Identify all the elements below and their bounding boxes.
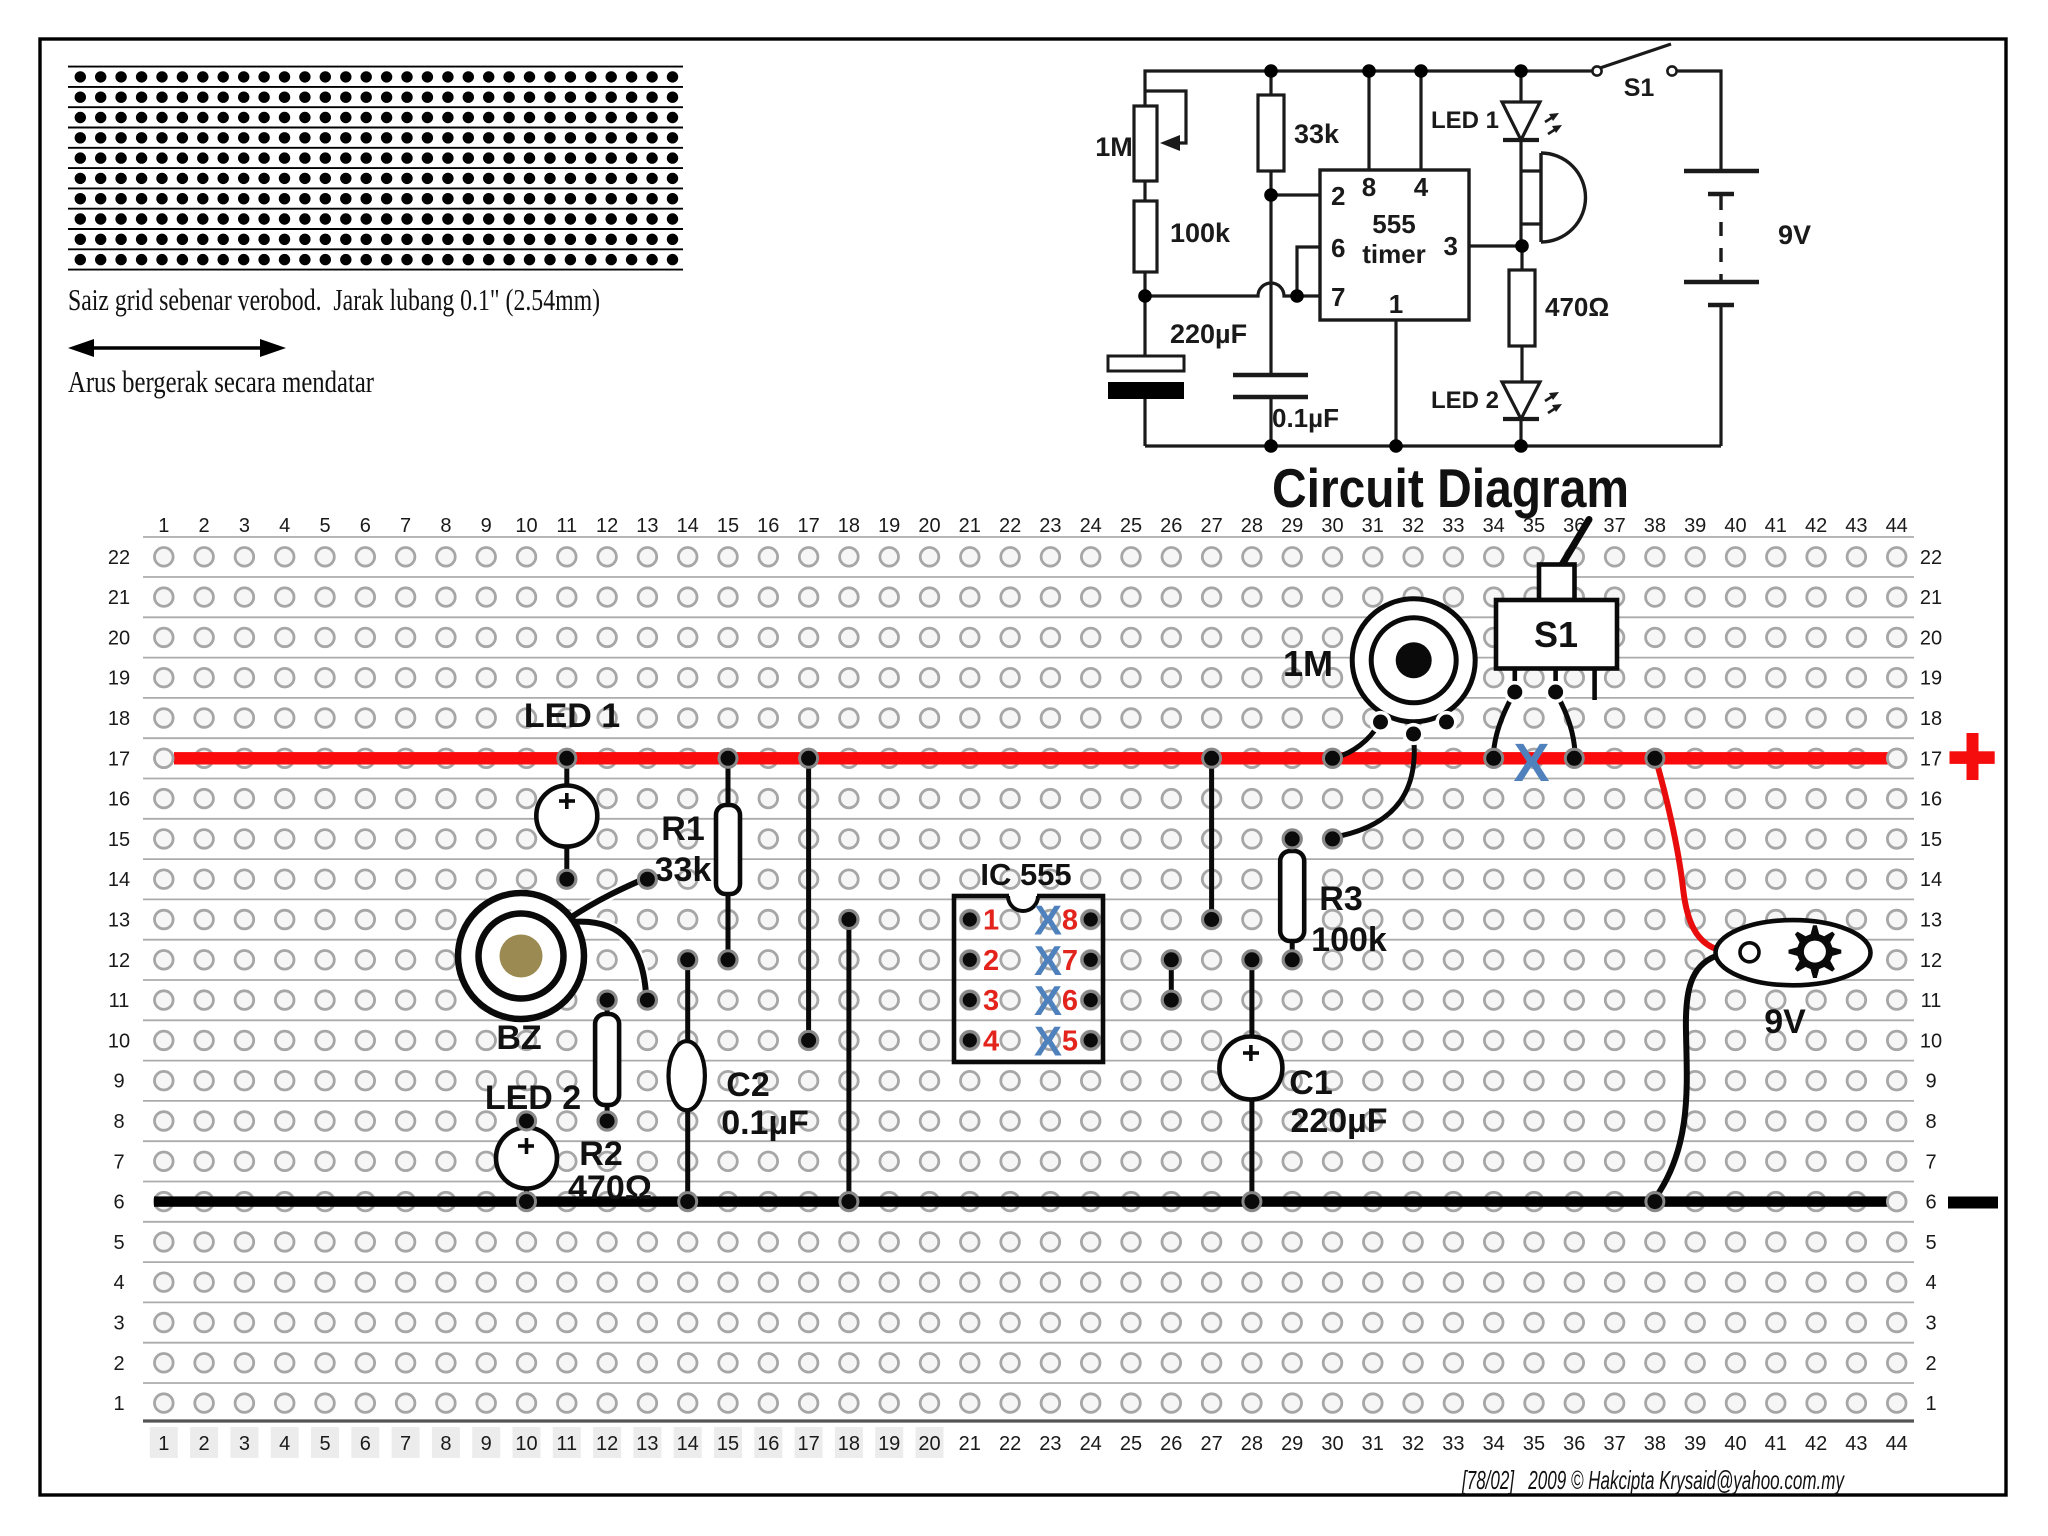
svg-text:19: 19 [108,668,130,690]
svg-text:36: 36 [1563,1433,1585,1455]
svg-text:43: 43 [1845,515,1867,537]
svg-text:100k: 100k [1170,218,1231,248]
svg-text:4: 4 [113,1272,124,1294]
svg-text:15: 15 [717,515,739,537]
wire: S1 left pin to col34 row17 [1494,695,1514,753]
svg-text:8: 8 [1062,905,1078,937]
svg-text:5: 5 [113,1232,124,1254]
svg-text:7: 7 [1331,282,1345,312]
svg-text:10: 10 [515,515,537,537]
svg-text:2: 2 [1331,181,1345,211]
svg-text:Arus bergerak secara mendatar: Arus bergerak secara mendatar [68,364,375,399]
schematic junction dots [1138,64,1529,453]
svg-text:9: 9 [481,515,492,537]
svg-text:16: 16 [1920,789,1942,811]
resistor 100k (schematic) [1134,201,1157,272]
capacitor C1 220uF on board (col 28, rows 12-6) [1249,960,1254,1038]
svg-text:18: 18 [838,515,860,537]
svg-text:20: 20 [1920,627,1942,649]
wire: LED1 branch [1519,71,1522,102]
svg-text:12: 12 [596,1433,618,1455]
svg-text:2: 2 [199,1433,210,1455]
node: positive rail strip row 17 (red) [174,752,1890,764]
svg-text:220µF: 220µF [1290,1102,1387,1140]
wire: pin7 node horizontal [1145,283,1320,296]
svg-text:22: 22 [999,1433,1021,1455]
svg-text:21: 21 [959,515,981,537]
svg-text:33: 33 [1442,1433,1464,1455]
svg-text:19: 19 [1920,668,1942,690]
svg-text:9: 9 [113,1071,124,1093]
svg-text:6: 6 [113,1192,124,1214]
svg-text:41: 41 [1765,1433,1787,1455]
svg-text:3: 3 [1444,231,1458,261]
svg-text:9V: 9V [1778,220,1811,250]
svg-text:33k: 33k [655,851,712,889]
svg-text:[78/02] 2009 © Hakcipta Krys: [78/02] 2009 © Hakcipta Krysaid@yahoo.co… [1461,1465,1845,1495]
svg-text:6: 6 [360,1433,371,1455]
svg-text:19: 19 [878,1433,900,1455]
svg-text:16: 16 [757,515,779,537]
svg-text:4: 4 [279,1433,290,1455]
svg-text:14: 14 [108,869,130,891]
svg-text:5: 5 [319,1433,330,1455]
IC pin numbers [983,905,1078,1058]
buzzer BZ on board [570,878,646,994]
switch S1 on board [1560,520,1589,569]
svg-text:6: 6 [1062,985,1078,1017]
svg-text:6: 6 [1331,233,1345,263]
wire: pin4 [1419,71,1422,170]
wire: 33k vertical [1269,71,1272,95]
svg-text:34: 34 [1483,1433,1505,1455]
svg-text:19: 19 [878,515,900,537]
veroboard holes [155,548,1906,1413]
wire jumper col 18 rows 13-6 [846,920,851,1202]
svg-text:40: 40 [1724,515,1746,537]
svg-text:10: 10 [515,1433,537,1455]
svg-text:X: X [1513,733,1549,793]
svg-text:22: 22 [108,547,130,569]
svg-text:9: 9 [481,1433,492,1455]
svg-text:18: 18 [1920,708,1942,730]
svg-text:28: 28 [1241,515,1263,537]
svg-text:1: 1 [983,905,999,937]
svg-text:23: 23 [1039,1433,1061,1455]
wire: pin1 to bottom rail [1394,320,1397,446]
svg-text:1: 1 [158,1433,169,1455]
battery 9V (schematic) [1684,171,1759,305]
svg-text:18: 18 [838,1433,860,1455]
svg-text:8: 8 [1925,1111,1936,1133]
svg-text:7: 7 [113,1151,124,1173]
svg-text:38: 38 [1644,515,1666,537]
svg-text:R3: R3 [1319,880,1362,918]
svg-text:2: 2 [1925,1353,1936,1375]
svg-text:13: 13 [636,515,658,537]
svg-text:17: 17 [797,1433,819,1455]
svg-text:470Ω: 470Ω [1545,292,1609,322]
svg-text:LED 1: LED 1 [1431,107,1499,134]
svg-text:38: 38 [1644,1433,1666,1455]
svg-text:9V: 9V [1764,1003,1806,1041]
svg-text:24: 24 [1080,515,1102,537]
svg-text:39: 39 [1684,1433,1706,1455]
svg-text:555: 555 [1372,209,1415,239]
svg-text:1: 1 [158,515,169,537]
svg-text:42: 42 [1805,1433,1827,1455]
resistor R2 470ohm on board (col 12, rows 11-8) [605,1000,610,1016]
svg-text:25: 25 [1120,515,1142,537]
svg-text:15: 15 [108,829,130,851]
svg-text:7: 7 [400,1433,411,1455]
veroboard strip boundary lines [143,537,1914,1383]
svg-text:17: 17 [1920,748,1942,770]
svg-text:29: 29 [1281,515,1303,537]
svg-text:29: 29 [1281,1433,1303,1455]
pot leg pads [1371,713,1390,732]
positive rail + symbol [1950,733,1995,780]
wire: top supply rail [1145,71,1592,106]
svg-text:26: 26 [1160,515,1182,537]
svg-text:1: 1 [1925,1393,1936,1415]
svg-text:5: 5 [319,515,330,537]
svg-text:0.1µF: 0.1µF [1272,403,1339,433]
svg-text:14: 14 [677,515,699,537]
resistor R3 100k on board (col 29, rows 15-12) [1290,839,1295,853]
capacitor 0.1uF (schematic) [1233,375,1308,397]
svg-text:1M: 1M [1283,643,1333,684]
svg-text:Saiz grid sebenar verobod. Ja: Saiz grid sebenar verobod. Jarak lubang … [68,282,600,317]
svg-text:1M: 1M [1095,132,1133,162]
svg-text:44: 44 [1886,515,1908,537]
svg-text:17: 17 [797,515,819,537]
svg-text:30: 30 [1321,1433,1343,1455]
wire: pin2 from 33k [1271,193,1320,196]
svg-text:C1: C1 [1289,1064,1332,1102]
wire: BZ lead to col13 row14 [570,878,646,918]
node: negative rail strip row 6 (black) [154,1196,1891,1206]
wire: bottom rail [1145,444,1721,447]
svg-text:17: 17 [108,748,130,770]
svg-text:21: 21 [1920,587,1942,609]
svg-text:30: 30 [1321,515,1343,537]
svg-text:33k: 33k [1294,119,1340,149]
sample veroboard actual-size grid [68,67,683,270]
svg-text:S1: S1 [1534,614,1578,655]
svg-text:16: 16 [757,1433,779,1455]
svg-text:31: 31 [1362,1433,1384,1455]
svg-text:25: 25 [1120,1433,1142,1455]
svg-text:7: 7 [1062,945,1078,977]
bottom column label shade boxes [150,1427,944,1458]
svg-text:14: 14 [1920,869,1942,891]
svg-text:220µF: 220µF [1170,319,1247,349]
svg-text:33: 33 [1442,515,1464,537]
svg-text:21: 21 [959,1433,981,1455]
svg-text:41: 41 [1765,515,1787,537]
svg-text:1: 1 [1389,289,1403,319]
svg-text:6: 6 [360,515,371,537]
svg-text:11: 11 [556,1433,577,1455]
resistor R1 33k on board (col 15, rows 17-12) [726,758,731,960]
svg-text:470Ω: 470Ω [568,1169,652,1207]
svg-text:11: 11 [1921,990,1942,1012]
wire: pin8 [1367,71,1370,170]
op IC U1 555 timer box (schematic) [1320,170,1469,320]
wire: right rail to battery [1677,71,1721,171]
wire: black battery lead to col38 row6 [1656,956,1716,1197]
svg-text:5: 5 [1062,1025,1078,1057]
svg-text:20: 20 [108,627,130,649]
svg-text:12: 12 [108,950,130,972]
wire: 470 ohm to LED2 [1520,246,1523,270]
svg-text:R2: R2 [579,1135,622,1173]
svg-text:13: 13 [636,1433,658,1455]
horizontal current direction arrow [68,339,286,357]
svg-text:28: 28 [1241,1433,1263,1455]
potentiometer VR1 1M (schematic) [1134,91,1186,181]
svg-text:8: 8 [1362,172,1376,202]
svg-text:4: 4 [1925,1272,1936,1294]
svg-text:22: 22 [1920,547,1942,569]
wire: S1 middle pin to col36 row17 [1557,695,1575,753]
wire: pot left leg to col30 row17 [1337,724,1379,757]
svg-text:6: 6 [1925,1192,1936,1214]
svg-text:10: 10 [108,1030,130,1052]
svg-text:11: 11 [109,990,130,1012]
svg-text:16: 16 [108,789,130,811]
svg-text:22: 22 [999,515,1021,537]
svg-text:12: 12 [1920,950,1942,972]
svg-text:27: 27 [1200,1433,1222,1455]
svg-text:20: 20 [918,1433,940,1455]
wire jumper col 26 rows 12-11 [1169,960,1174,1000]
svg-text:2: 2 [113,1353,124,1375]
svg-text:X: X [1034,1017,1062,1064]
switch S1 (schematic) [1592,66,1601,75]
svg-text:13: 13 [1920,910,1942,932]
svg-text:4: 4 [279,515,290,537]
wire: pot wiper leg to col30 row15 [1340,736,1414,836]
svg-text:21: 21 [108,587,130,609]
wire jumper col 17 rows 17-10 [806,758,811,1040]
svg-text:IC 555: IC 555 [980,857,1071,892]
svg-text:43: 43 [1845,1433,1867,1455]
IC pin dots [961,911,978,928]
svg-text:LED 2: LED 2 [485,1079,581,1117]
svg-text:40: 40 [1724,1433,1746,1455]
svg-text:8: 8 [440,515,451,537]
svg-text:7: 7 [400,515,411,537]
wire: BZ lead to col13 row11 [572,922,646,994]
svg-text:8: 8 [113,1111,124,1133]
svg-text:7: 7 [1925,1151,1936,1173]
svg-text:5: 5 [1925,1232,1936,1254]
svg-text:39: 39 [1684,515,1706,537]
svg-text:Circuit Diagram: Circuit Diagram [1272,457,1629,519]
svg-text:31: 31 [1362,515,1384,537]
svg-text:2: 2 [199,515,210,537]
svg-text:32: 32 [1402,515,1424,537]
svg-text:14: 14 [677,1433,699,1455]
svg-text:4: 4 [983,1025,999,1057]
svg-text:37: 37 [1603,515,1625,537]
row numbers left and right [108,547,1942,1415]
svg-text:timer: timer [1362,239,1426,269]
svg-text:10: 10 [1920,1030,1942,1052]
svg-text:3: 3 [239,515,250,537]
wire: LED2 to bottom rail [1519,419,1522,446]
wire: battery bottom to rail [1719,305,1722,446]
svg-text:18: 18 [108,708,130,730]
svg-text:27: 27 [1200,515,1222,537]
svg-text:100k: 100k [1311,921,1387,959]
svg-text:32: 32 [1402,1433,1424,1455]
svg-text:S1: S1 [1624,74,1655,102]
svg-text:9: 9 [1925,1071,1936,1093]
wire: speaker stubs [1521,169,1541,172]
capacitor C2 0.1uF on board (col 14, rows 12-6) [685,960,690,1044]
negative rail - symbol [1948,1197,1998,1209]
svg-text:BZ: BZ [496,1019,541,1057]
wire: left rail 100k to 220uF [1143,272,1146,356]
svg-text:C2: C2 [726,1066,769,1104]
svg-text:12: 12 [596,515,618,537]
svg-text:20: 20 [918,515,940,537]
LED 2 (schematic) [1502,382,1540,419]
svg-text:37: 37 [1603,1433,1625,1455]
svg-text:LED 1: LED 1 [524,697,620,735]
wire: pin6 elbow [1297,247,1320,296]
svg-text:3: 3 [239,1433,250,1455]
svg-text:35: 35 [1523,1433,1545,1455]
svg-text:1: 1 [113,1393,124,1415]
svg-text:15: 15 [1920,829,1942,851]
speaker (schematic) [1541,153,1586,242]
svg-text:24: 24 [1080,1433,1102,1455]
svg-text:34: 34 [1483,515,1505,537]
blue X marks on unused col 23 [1034,897,1062,1065]
svg-text:LED 2: LED 2 [1431,387,1499,414]
svg-text:15: 15 [717,1433,739,1455]
svg-text:23: 23 [1039,515,1061,537]
svg-text:35: 35 [1523,515,1545,537]
wire: 0.1uF to bottom rail [1269,397,1272,446]
svg-text:42: 42 [1805,515,1827,537]
svg-text:11: 11 [556,515,577,537]
svg-text:8: 8 [440,1433,451,1455]
capacitor 220uF (schematic) [1108,356,1184,371]
wire: pin3 to output node [1469,244,1522,247]
wire: red battery lead col38 row17 [1656,760,1716,949]
resistor 33k (schematic) [1258,95,1284,171]
svg-text:3: 3 [983,985,999,1017]
svg-text:44: 44 [1886,1433,1908,1455]
svg-text:3: 3 [1925,1313,1936,1335]
svg-text:2: 2 [983,945,999,977]
svg-text:R1: R1 [661,810,704,848]
wire jumper col 27 rows 17-13 [1209,758,1214,919]
LED 1 (schematic) [1502,102,1540,140]
svg-text:3: 3 [113,1313,124,1335]
svg-text:4: 4 [1414,172,1429,202]
column numbers top and bottom [158,515,1908,1455]
svg-text:13: 13 [108,910,130,932]
resistor 470 ohm (schematic) [1509,270,1535,346]
svg-text:26: 26 [1160,1433,1182,1455]
svg-text:0.1µF: 0.1µF [721,1104,809,1142]
